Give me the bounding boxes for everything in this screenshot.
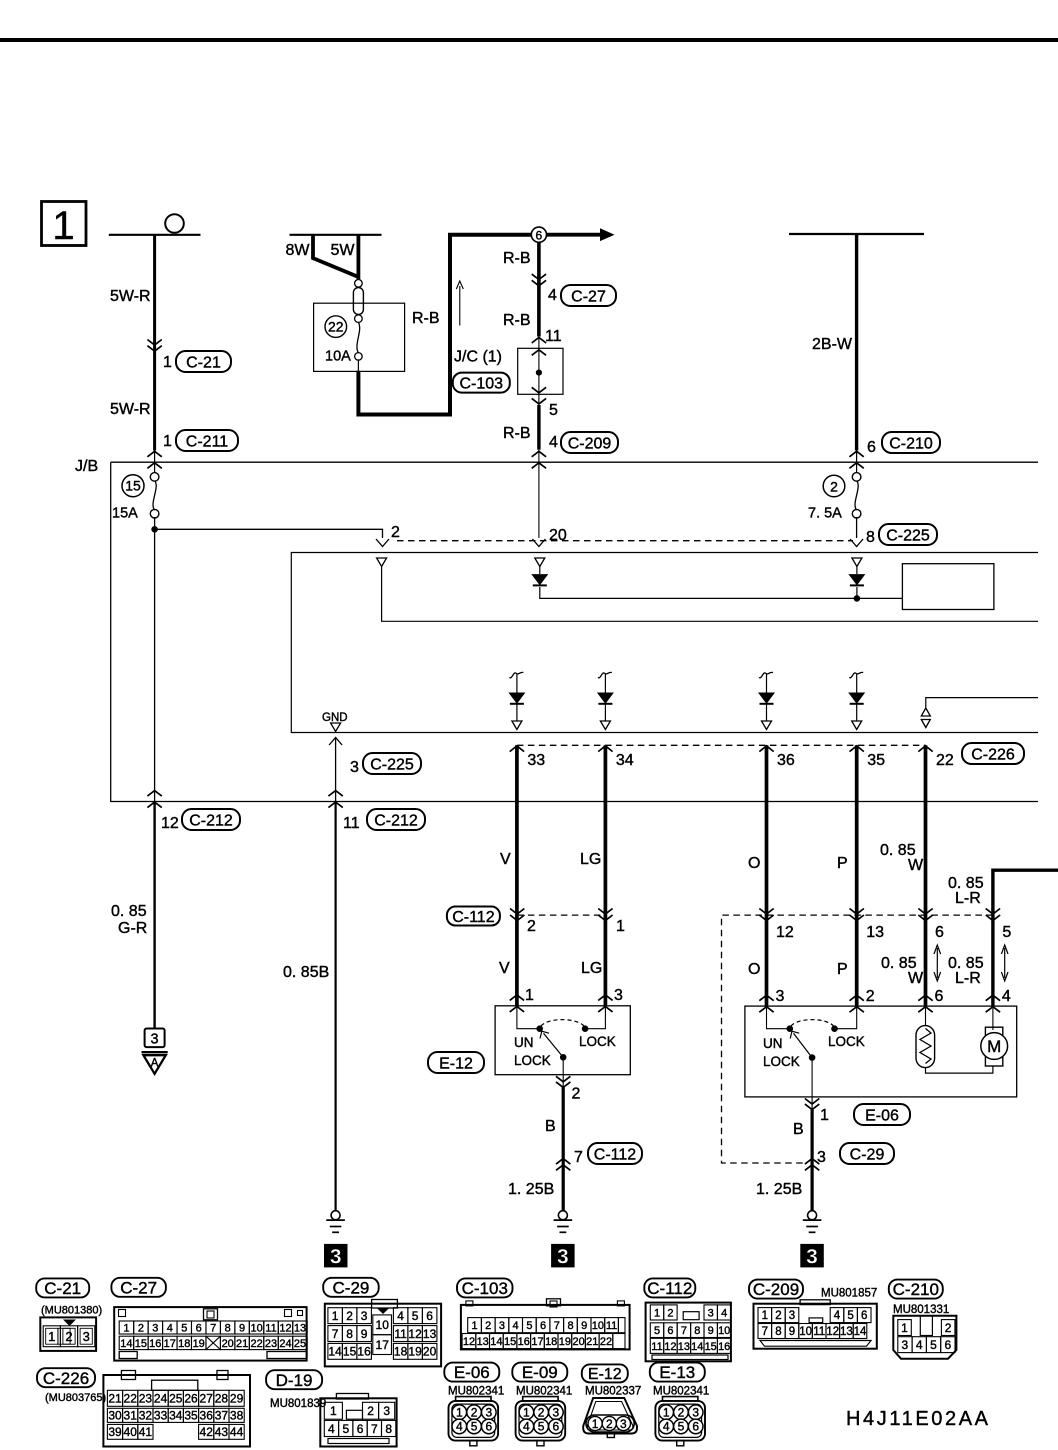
svg-text:8: 8 xyxy=(567,1320,573,1332)
connector mark pin 35 xyxy=(850,746,864,752)
svg-text:2: 2 xyxy=(678,1406,685,1420)
svg-text:3: 3 xyxy=(485,1406,492,1420)
connector C-225 pill xyxy=(363,753,421,774)
svg-text:J/C (1): J/C (1) xyxy=(454,349,502,366)
input terminal (pin2 side) xyxy=(377,558,387,567)
svg-text:39: 39 xyxy=(108,1425,122,1439)
svg-text:20: 20 xyxy=(222,1338,234,1350)
svg-text:2: 2 xyxy=(572,1086,581,1103)
svg-text:15A: 15A xyxy=(112,506,138,522)
svg-text:5W-R: 5W-R xyxy=(110,401,151,418)
marker pin 12 xyxy=(759,909,773,915)
svg-text:5: 5 xyxy=(847,1310,853,1322)
svg-text:36: 36 xyxy=(200,1409,214,1423)
svg-text:20: 20 xyxy=(572,1336,584,1348)
svg-text:21: 21 xyxy=(236,1338,248,1350)
pass-through marker at J/B top (C-210) xyxy=(849,451,863,457)
svg-text:C-29: C-29 xyxy=(333,1278,370,1297)
svg-text:42: 42 xyxy=(200,1425,214,1439)
wire to LOCK contact xyxy=(838,1006,857,1029)
svg-text:2: 2 xyxy=(391,524,400,541)
svg-text:2: 2 xyxy=(527,918,536,935)
svg-text:20: 20 xyxy=(423,1345,437,1359)
connector C-210 pill xyxy=(882,432,940,453)
svg-text:4: 4 xyxy=(167,1323,173,1335)
svg-text:5W-R: 5W-R xyxy=(110,288,151,305)
connector C-210 pill xyxy=(889,1280,943,1299)
unit E-06 box xyxy=(745,1006,1017,1097)
svg-text:J/B: J/B xyxy=(75,458,98,475)
svg-text:32: 32 xyxy=(139,1409,153,1423)
junction dot xyxy=(152,527,158,533)
svg-text:E-06: E-06 xyxy=(454,1363,490,1382)
svg-text:1: 1 xyxy=(525,987,534,1004)
wire 20 from C-209 to C-225 xyxy=(538,462,540,538)
svg-text:R-B: R-B xyxy=(412,310,440,327)
svg-text:C-29: C-29 xyxy=(850,1146,885,1163)
lamp diode branch 1 xyxy=(509,672,523,677)
svg-text:12: 12 xyxy=(408,1327,422,1341)
connector C-103 pill xyxy=(453,373,510,393)
svg-text:9: 9 xyxy=(361,1327,368,1341)
svg-text:5: 5 xyxy=(549,402,558,419)
power bus (middle) xyxy=(290,234,382,236)
pass-through C-212 pin 11 xyxy=(328,791,342,797)
svg-text:34: 34 xyxy=(169,1409,183,1423)
svg-text:16: 16 xyxy=(518,1336,530,1348)
svg-text:3: 3 xyxy=(708,1307,714,1319)
svg-text:3: 3 xyxy=(776,988,785,1005)
fuse number circle 22 xyxy=(325,316,347,338)
wire pivot to box bottom xyxy=(811,1058,813,1097)
ground reference 3 xyxy=(800,1244,824,1268)
svg-text:8: 8 xyxy=(866,529,875,546)
connector C-27 pill xyxy=(111,1278,165,1297)
svg-text:E-12: E-12 xyxy=(588,1366,622,1383)
svg-text:5: 5 xyxy=(930,1338,937,1352)
marker pin 2 (E-06) xyxy=(850,995,864,1001)
svg-text:11: 11 xyxy=(651,1341,662,1353)
wire 35 (P) xyxy=(855,745,859,1006)
svg-text:1: 1 xyxy=(820,1107,829,1124)
wire 8W branch xyxy=(313,235,357,277)
connector C-112 pill xyxy=(447,907,500,926)
connector D-19 pill xyxy=(266,1370,322,1389)
wire from fuse to junction xyxy=(154,517,156,802)
wire 5W-R vertical xyxy=(153,235,156,451)
svg-text:37: 37 xyxy=(215,1409,229,1423)
power bus (right) xyxy=(789,233,924,235)
junction dot xyxy=(536,370,541,375)
marker pin 6 xyxy=(918,909,932,915)
wire R-B from fuse to junction riser xyxy=(357,359,359,370)
door lock actuator switch E-12 box xyxy=(495,1006,630,1075)
svg-text:E-09: E-09 xyxy=(522,1363,558,1382)
svg-text:LOCK: LOCK xyxy=(828,1034,865,1049)
svg-text:4: 4 xyxy=(397,1309,404,1323)
svg-text:9: 9 xyxy=(789,1326,795,1338)
svg-text:MU801331: MU801331 xyxy=(893,1304,949,1316)
svg-text:6: 6 xyxy=(692,1420,699,1434)
svg-text:1. 25B: 1. 25B xyxy=(508,1181,554,1198)
svg-text:14: 14 xyxy=(490,1336,502,1348)
LOCK contact dot xyxy=(832,1026,838,1032)
svg-text:C-27: C-27 xyxy=(120,1278,157,1297)
svg-text:C-225: C-225 xyxy=(370,756,414,773)
svg-text:LG: LG xyxy=(581,960,602,977)
svg-text:4: 4 xyxy=(916,1338,923,1352)
svg-text:12: 12 xyxy=(463,1336,475,1348)
svg-text:22: 22 xyxy=(124,1392,138,1406)
svg-text:33: 33 xyxy=(527,752,545,769)
svg-text:1: 1 xyxy=(616,918,625,935)
connector C-21 drawing xyxy=(40,1317,96,1351)
svg-text:18: 18 xyxy=(178,1338,190,1350)
svg-text:3: 3 xyxy=(902,1338,909,1352)
UNLOCK contact dot xyxy=(787,1026,793,1032)
marker pin 3 (E-06) xyxy=(759,995,773,1001)
switch lever xyxy=(794,1033,813,1057)
svg-text:1. 25B: 1. 25B xyxy=(756,1181,802,1198)
svg-text:O: O xyxy=(748,961,760,978)
svg-text:1: 1 xyxy=(163,433,172,450)
motor M xyxy=(992,1006,994,1030)
connector C-27 drawing xyxy=(114,1307,306,1361)
svg-text:7: 7 xyxy=(210,1323,216,1335)
wire B to C-112 pin 7 xyxy=(562,1075,564,1088)
svg-text:1: 1 xyxy=(901,1321,908,1335)
svg-text:LOCK: LOCK xyxy=(514,1053,551,1068)
svg-text:4: 4 xyxy=(523,1420,530,1434)
svg-text:9: 9 xyxy=(581,1320,587,1332)
joint connector J/C(1) box xyxy=(518,348,563,394)
svg-text:3: 3 xyxy=(152,1323,158,1335)
svg-text:11: 11 xyxy=(343,815,360,832)
svg-text:3: 3 xyxy=(620,1417,627,1431)
svg-text:35: 35 xyxy=(867,752,885,769)
diode D2 xyxy=(856,567,858,575)
svg-text:12: 12 xyxy=(279,1323,291,1335)
svg-text:2: 2 xyxy=(830,478,838,494)
pivot dot xyxy=(560,1055,566,1061)
svg-text:O: O xyxy=(748,855,760,872)
ground A triangle xyxy=(142,1051,168,1053)
wire diode to resistor unit xyxy=(540,587,903,598)
svg-text:GND: GND xyxy=(322,712,348,724)
pass-through C-212 pin 12 xyxy=(147,791,161,797)
svg-text:2: 2 xyxy=(775,1310,781,1322)
svg-text:13: 13 xyxy=(423,1327,437,1341)
svg-text:G-R: G-R xyxy=(118,920,147,937)
svg-text:11: 11 xyxy=(265,1323,276,1335)
svg-text:1: 1 xyxy=(523,1406,530,1420)
svg-text:6: 6 xyxy=(935,988,944,1005)
svg-text:4: 4 xyxy=(834,1310,841,1322)
connector E-06 drawing xyxy=(456,1397,491,1401)
connector C-27 pill xyxy=(561,285,616,306)
svg-text:8: 8 xyxy=(225,1323,231,1335)
svg-text:5: 5 xyxy=(526,1320,532,1332)
svg-text:A: A xyxy=(151,1058,159,1070)
wire to connector C-225 pin 2 xyxy=(155,529,383,538)
svg-text:6: 6 xyxy=(536,229,543,243)
svg-text:4: 4 xyxy=(549,434,558,451)
svg-text:1: 1 xyxy=(472,1320,478,1332)
connector E-09 drawing xyxy=(523,1397,558,1401)
svg-text:5: 5 xyxy=(181,1323,187,1335)
svg-text:23: 23 xyxy=(139,1392,153,1406)
svg-text:3: 3 xyxy=(350,759,359,776)
svg-text:11: 11 xyxy=(606,1320,617,1332)
svg-text:15: 15 xyxy=(135,1338,147,1350)
svg-text:8: 8 xyxy=(694,1325,700,1337)
svg-text:10A: 10A xyxy=(325,349,351,365)
svg-text:UN: UN xyxy=(514,1035,534,1050)
svg-text:22: 22 xyxy=(936,752,954,769)
svg-text:6: 6 xyxy=(426,1309,433,1323)
figure number box 1 xyxy=(42,202,87,246)
svg-text:1: 1 xyxy=(592,1417,599,1431)
connector mark pin 22 xyxy=(918,746,932,752)
svg-text:13: 13 xyxy=(477,1336,489,1348)
connector C-210 drawing xyxy=(893,1316,956,1359)
svg-text:R-B: R-B xyxy=(503,425,531,442)
connector C-29 pill xyxy=(840,1143,894,1164)
fuse 15A element xyxy=(150,473,159,482)
svg-text:3: 3 xyxy=(806,1245,818,1268)
input terminal (pin20 side) xyxy=(535,558,545,567)
svg-text:P: P xyxy=(837,855,848,872)
marker pin 1 below box xyxy=(805,1099,819,1105)
svg-text:LG: LG xyxy=(580,851,601,868)
svg-text:16: 16 xyxy=(718,1341,730,1353)
dashed throw arc xyxy=(791,1020,834,1026)
svg-text:35: 35 xyxy=(184,1409,198,1423)
svg-text:4: 4 xyxy=(663,1420,670,1434)
wire element to bottom link xyxy=(926,1066,993,1073)
svg-text:1: 1 xyxy=(163,354,172,371)
svg-text:11: 11 xyxy=(394,1327,407,1341)
svg-text:W: W xyxy=(908,857,924,874)
interior unit box xyxy=(291,553,1038,733)
svg-text:6: 6 xyxy=(867,439,876,456)
svg-text:C-112: C-112 xyxy=(647,1279,692,1298)
svg-text:17: 17 xyxy=(531,1336,543,1348)
ground reference 3 xyxy=(551,1244,575,1268)
svg-text:C-226: C-226 xyxy=(43,1369,89,1388)
svg-text:25: 25 xyxy=(169,1392,183,1406)
svg-text:E-12: E-12 xyxy=(439,1055,473,1072)
marker pin 6 (E-06) xyxy=(918,995,932,1001)
pin 11 marker xyxy=(532,338,546,344)
svg-text:1: 1 xyxy=(330,1404,337,1418)
svg-text:6: 6 xyxy=(357,1422,364,1436)
svg-text:20: 20 xyxy=(549,527,567,544)
svg-text:2: 2 xyxy=(667,1307,673,1319)
dashed connector line C-225 xyxy=(397,540,853,542)
svg-text:30: 30 xyxy=(108,1409,122,1423)
svg-text:7: 7 xyxy=(762,1326,768,1338)
pass-through marker at J/B top (C-211) xyxy=(147,451,161,457)
svg-text:28: 28 xyxy=(215,1392,229,1406)
connector E-06 pill xyxy=(444,1363,499,1382)
svg-text:12: 12 xyxy=(161,815,179,832)
svg-text:31: 31 xyxy=(124,1409,138,1423)
svg-text:19: 19 xyxy=(408,1345,422,1359)
dashed connector line C-112 xyxy=(517,914,606,916)
svg-text:1: 1 xyxy=(762,1310,768,1322)
pass-through marker at J/B top (C-209) xyxy=(532,451,546,457)
svg-text:5: 5 xyxy=(471,1420,478,1434)
wire 36 (O) xyxy=(765,745,769,1006)
svg-text:2: 2 xyxy=(471,1406,478,1420)
svg-text:3: 3 xyxy=(383,1404,390,1418)
svg-text:2: 2 xyxy=(346,1309,353,1323)
fuse number circle 2 xyxy=(823,475,845,497)
svg-text:5: 5 xyxy=(538,1420,545,1434)
marker pin 13 xyxy=(850,909,864,915)
svg-text:21: 21 xyxy=(586,1336,598,1348)
svg-text:V: V xyxy=(500,851,511,868)
svg-text:2: 2 xyxy=(65,1329,72,1344)
svg-text:12: 12 xyxy=(664,1341,676,1353)
svg-text:3: 3 xyxy=(330,1245,342,1268)
svg-text:1: 1 xyxy=(123,1323,129,1335)
connector C-226 pill xyxy=(962,743,1024,764)
svg-text:6: 6 xyxy=(944,1338,951,1352)
svg-text:2: 2 xyxy=(866,988,875,1005)
svg-text:4: 4 xyxy=(721,1307,727,1319)
connector D-19 drawing xyxy=(320,1398,396,1446)
marker pin 4 (E-06) xyxy=(986,995,1000,1001)
ground symbol square 3 xyxy=(145,1029,165,1048)
svg-text:4: 4 xyxy=(548,287,557,304)
connector E-12 pill xyxy=(428,1052,484,1073)
svg-text:13: 13 xyxy=(678,1341,690,1353)
GND terminal triangle xyxy=(331,723,341,732)
connector C-226 drawing xyxy=(103,1375,250,1447)
svg-text:3: 3 xyxy=(553,1406,560,1420)
svg-text:6: 6 xyxy=(485,1420,492,1434)
dashed connector line C-226 xyxy=(517,744,926,746)
svg-text:12: 12 xyxy=(826,1326,839,1338)
wire to UNLOCK contact xyxy=(517,1006,537,1029)
svg-text:C-210: C-210 xyxy=(893,1280,939,1299)
svg-text:4: 4 xyxy=(456,1420,463,1434)
wire to UNLOCK contact xyxy=(767,1006,788,1029)
svg-text:43: 43 xyxy=(215,1425,229,1439)
svg-text:2: 2 xyxy=(945,1321,952,1335)
svg-text:E-06: E-06 xyxy=(865,1107,899,1124)
svg-text:15: 15 xyxy=(705,1341,717,1353)
svg-text:C-103: C-103 xyxy=(462,1279,508,1298)
connector mark pin 34 xyxy=(598,746,612,752)
connector C-112 pill xyxy=(644,1278,695,1297)
connector E-12 drawing xyxy=(583,1398,637,1434)
svg-text:6: 6 xyxy=(861,1310,867,1322)
svg-text:19: 19 xyxy=(193,1338,205,1350)
svg-text:2B-W: 2B-W xyxy=(812,336,853,353)
svg-text:C-211: C-211 xyxy=(186,433,228,450)
svg-text:6: 6 xyxy=(667,1325,673,1337)
connector C-103 drawing xyxy=(461,1305,630,1350)
svg-text:19: 19 xyxy=(559,1336,571,1348)
svg-text:25: 25 xyxy=(294,1338,306,1350)
connector mark pin 33 xyxy=(510,746,524,752)
connector C-226 pill xyxy=(37,1368,95,1387)
svg-text:1: 1 xyxy=(48,1329,55,1344)
svg-text:22: 22 xyxy=(250,1338,262,1350)
input terminal (pin8 side) xyxy=(852,558,862,567)
indicator circle on bus xyxy=(165,214,184,233)
svg-text:7: 7 xyxy=(574,1149,583,1166)
svg-text:23: 23 xyxy=(265,1338,277,1350)
ground (body earth) 0.85B xyxy=(331,1211,340,1220)
switch lever xyxy=(544,1033,564,1057)
svg-text:H4J11E02AA: H4J11E02AA xyxy=(846,1408,991,1430)
svg-text:7: 7 xyxy=(332,1327,339,1341)
svg-text:B: B xyxy=(793,1121,804,1138)
svg-text:10: 10 xyxy=(592,1320,604,1332)
svg-text:6: 6 xyxy=(553,1420,560,1434)
connector C-209 drawing xyxy=(754,1304,877,1349)
span arrow (W wire) xyxy=(936,948,938,978)
svg-text:4: 4 xyxy=(1002,988,1011,1005)
svg-text:12: 12 xyxy=(776,924,794,941)
svg-text:8: 8 xyxy=(775,1326,781,1338)
svg-text:8: 8 xyxy=(385,1422,392,1436)
svg-text:7: 7 xyxy=(371,1422,378,1436)
svg-text:15: 15 xyxy=(343,1345,357,1359)
lamp diode branch 4 xyxy=(849,672,863,677)
marker pin 5 xyxy=(986,909,1000,915)
diode D1 xyxy=(539,567,541,575)
svg-text:(MU801380): (MU801380) xyxy=(41,1305,102,1317)
svg-text:MU801839: MU801839 xyxy=(270,1398,326,1410)
svg-text:6: 6 xyxy=(540,1320,546,1332)
svg-text:2: 2 xyxy=(367,1404,374,1418)
svg-text:C-210: C-210 xyxy=(889,435,933,452)
marker C-112 pin 7 xyxy=(556,1165,570,1171)
svg-text:M: M xyxy=(987,1037,1001,1056)
svg-text:10: 10 xyxy=(799,1326,812,1338)
svg-text:MU802341: MU802341 xyxy=(516,1386,572,1398)
svg-text:R-B: R-B xyxy=(503,312,531,329)
svg-text:14: 14 xyxy=(328,1345,342,1359)
svg-text:C-21: C-21 xyxy=(44,1279,81,1298)
svg-text:14: 14 xyxy=(854,1326,867,1338)
svg-text:34: 34 xyxy=(616,752,634,769)
svg-text:14: 14 xyxy=(691,1341,703,1353)
pivot dot xyxy=(809,1055,815,1061)
svg-text:3: 3 xyxy=(499,1320,505,1332)
power bus node (top left) xyxy=(109,234,201,236)
wire 5W-R to ground A xyxy=(153,802,155,1029)
fuse 7.5A element xyxy=(852,473,861,482)
connector E-12 pill xyxy=(582,1364,628,1382)
svg-text:0. 85B: 0. 85B xyxy=(283,964,329,981)
marker pin 1 (E-12) xyxy=(510,995,524,1001)
svg-text:R-B: R-B xyxy=(503,250,531,267)
svg-text:C-209: C-209 xyxy=(753,1280,799,1299)
svg-text:3: 3 xyxy=(692,1406,699,1420)
connector E-09 pill xyxy=(512,1363,567,1382)
marker pin 2 xyxy=(510,909,524,915)
svg-text:C-226: C-226 xyxy=(971,746,1015,763)
svg-text:MU802337: MU802337 xyxy=(585,1386,641,1398)
wire to LOCK contact xyxy=(588,1006,605,1029)
connector C-112 drawing xyxy=(646,1303,731,1362)
